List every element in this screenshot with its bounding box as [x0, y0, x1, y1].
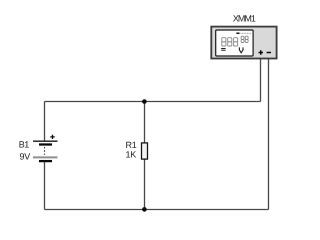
svg-text:9V: 9V: [20, 151, 31, 161]
wire multimeter - lead: [268, 59, 270, 210]
battery plate positive long: [33, 140, 58, 142]
wire resistor bottom lead: [144, 159, 146, 210]
terminal -: [267, 52, 271, 54]
display DC mode symbol: [221, 49, 225, 51]
svg-text:XMM1: XMM1: [233, 13, 256, 23]
wire bottom net: [45, 209, 269, 211]
node junction bottom: [142, 207, 147, 212]
wire multimeter + lead: [260, 59, 262, 102]
svg-text:1K: 1K: [126, 150, 137, 160]
multimeter XMM1: [211, 27, 276, 59]
svg-text:B1: B1: [19, 139, 29, 149]
display annunciator dash and dots: [236, 33, 239, 35]
battery plate positive long lower cell: [33, 156, 58, 158]
battery plate negative short lower cell: [39, 160, 52, 162]
svg-text:R1: R1: [126, 140, 137, 150]
resistor R1: [142, 143, 148, 159]
battery plate negative short: [39, 143, 52, 145]
wire top net from battery + to multimeter +: [45, 101, 261, 103]
display V unit symbol: [239, 47, 243, 52]
display digits 888.88: [222, 36, 248, 46]
wire battery bottom lead: [44, 162, 46, 210]
battery polarity + mark: [50, 135, 54, 139]
node junction top: [142, 99, 147, 104]
terminal +: [259, 50, 264, 55]
wire battery top lead: [44, 102, 46, 142]
battery B1: [33, 135, 58, 161]
battery cell divider dashed: [44, 147, 46, 155]
multimeter body: [211, 27, 276, 59]
multimeter display: [216, 30, 253, 56]
wire resistor top lead: [144, 102, 146, 144]
